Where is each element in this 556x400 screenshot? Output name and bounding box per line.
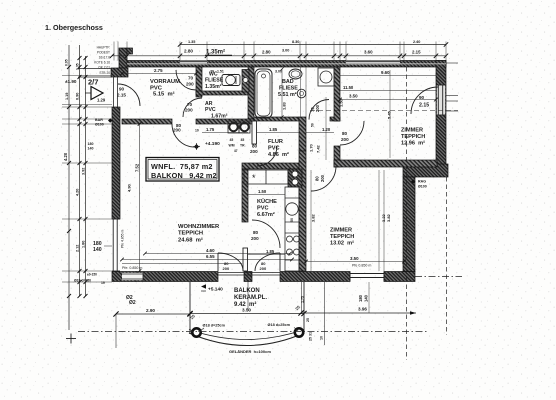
svg-text:3.92: 3.92 (82, 168, 86, 175)
svg-text:80: 80 (253, 230, 259, 235)
wall flur/wohnzimmer (light partition) (252, 121, 257, 144)
flur dim 1.85 (257, 132, 300, 134)
svg-text:5.15 m²: 5.15 m² (153, 91, 175, 98)
svg-text:RAG: RAG (418, 180, 426, 184)
svg-text:PODEST: PODEST (97, 51, 110, 55)
svg-text:1.75: 1.75 (301, 296, 305, 303)
svg-text:PVC: PVC (205, 107, 216, 113)
balcony railing outer curve (189, 333, 304, 346)
washbasin (318, 68, 334, 86)
svg-text:1.19: 1.19 (65, 93, 69, 100)
zimmer-se dim 3.50 (306, 261, 404, 263)
svg-text:1. Obergeschoss: 1. Obergeschoss (45, 23, 103, 32)
balcony french door right arc (255, 253, 280, 271)
wall vorraum south (122, 119, 172, 124)
svg-text:1.35: 1.35 (76, 63, 80, 70)
door vorraum-wohnzimmer arc (172, 124, 195, 147)
wohnzimmer parapet line (122, 263, 242, 265)
svg-text:HAUPTP.: HAUPTP. (97, 46, 111, 50)
svg-text:180: 180 (358, 294, 363, 302)
svg-text:+4.190: +4.190 (205, 141, 220, 147)
svg-text:200: 200 (223, 266, 230, 271)
bottom dim 2.90 (116, 313, 190, 315)
wall flur/kueche corner block (299, 117, 306, 151)
svg-text:2.15: 2.15 (117, 93, 126, 98)
svg-text:1.50: 1.50 (258, 189, 267, 194)
svg-text:WOHNZIMMER: WOHNZIMMER (178, 224, 220, 230)
entrance exterior lines (78, 68, 112, 70)
stairwell wall base block (111, 68, 128, 77)
wall zimmer-ne south (334, 160, 437, 167)
balcony post left (192, 328, 200, 336)
svg-text:BAD: BAD (282, 79, 294, 85)
svg-text:140: 140 (88, 147, 94, 151)
top dim line 2 (180, 44, 446, 46)
wall kueche west lower (light jamb) (243, 248, 248, 271)
balcony level marker +5.140 (201, 284, 206, 288)
svg-text:PVC: PVC (257, 206, 269, 212)
svg-text:1.29: 1.29 (97, 98, 106, 103)
svg-text:Ø2: Ø2 (129, 300, 136, 306)
wall kueche west upper (242, 169, 248, 222)
left dim line mid (79, 45, 81, 296)
dashed axis vertical through plan (406, 67, 408, 360)
zimmer-ne dim 3.50 (340, 99, 436, 101)
svg-text:24.68 m²: 24.68 m² (178, 237, 203, 244)
stairwell wall column top-left (119, 48, 127, 68)
exterior bottom wall middle segment (280, 272, 350, 282)
svg-text:200: 200 (320, 174, 325, 182)
svg-text:9.60: 9.60 (381, 70, 390, 75)
svg-text:16x17.6: 16x17.6 (99, 56, 111, 60)
stairwell wall stub right (127, 48, 133, 54)
right wall balcony door 90/2.15 (437, 85, 445, 115)
svg-text:200: 200 (260, 266, 267, 271)
svg-text:45: 45 (241, 138, 245, 142)
svg-text:1.20: 1.20 (322, 127, 331, 132)
balcony door center post (244, 272, 252, 282)
svg-text:1.51: 1.51 (217, 70, 224, 74)
balcony post right (295, 328, 303, 336)
svg-text:70: 70 (210, 70, 214, 74)
exterior right wall upper (436, 61, 446, 177)
bathtub (255, 69, 272, 118)
bad second basin (297, 89, 306, 98)
stair direction triangle (91, 87, 103, 100)
exterior right wall lower (403, 177, 415, 272)
bottom wall window (ZIMMER south window 180/140) (350, 273, 384, 275)
svg-text:4.20: 4.20 (63, 152, 68, 161)
level marker +4.190 (194, 144, 199, 149)
left wall window (WOHNZIMMER west window 180/140) (112, 219, 114, 271)
bottom wall window section west (parapet) (122, 273, 143, 280)
svg-text:7.52: 7.52 (135, 163, 140, 172)
kitchen east counter (285, 187, 299, 271)
svg-text:4.60: 4.60 (206, 248, 215, 253)
svg-text:90: 90 (119, 87, 125, 92)
dash-dot axis right of bottom wall (415, 276, 462, 278)
svg-text:10: 10 (320, 336, 324, 340)
left horizontal extension lines (62, 74, 112, 76)
svg-text:PVC: PVC (268, 146, 280, 152)
svg-text:200: 200 (341, 137, 349, 142)
svg-text:0.95: 0.95 (65, 59, 69, 66)
RAG drain marker right (411, 179, 415, 183)
bottom dim 3.96 (301, 312, 416, 314)
svg-text:80: 80 (252, 144, 258, 149)
svg-text:GELÄNDER h=100cm: GELÄNDER h=100cm (229, 349, 271, 354)
kueche dim 1.85 (248, 254, 285, 256)
svg-text:47: 47 (234, 149, 238, 153)
svg-text:STB 20: STB 20 (99, 71, 110, 75)
svg-text:±0-150: ±0-150 (87, 273, 97, 277)
exterior left wall (112, 107, 120, 219)
svg-text:+5.140: +5.140 (208, 287, 223, 293)
svg-text:ZIMMER: ZIMMER (401, 128, 423, 134)
svg-text:KERAM.PL.: KERAM.PL. (234, 295, 267, 301)
exterior bottom wall east segment (384, 272, 415, 282)
svg-text:2.15: 2.15 (419, 103, 429, 109)
svg-text:2.80: 2.80 (184, 49, 193, 54)
vorraum dim 2.75 (122, 73, 196, 75)
svg-text:Pfe. 0.850 m: Pfe. 0.850 m (122, 266, 142, 270)
svg-text:BALKON: BALKON (234, 288, 260, 294)
svg-text:25 31: 25 31 (309, 332, 313, 341)
flur dim 1.20 (306, 132, 334, 134)
survey cross bottom-left (66, 338, 76, 340)
balcony railing inner curve (189, 330, 304, 340)
top wall mid joint line (127, 63, 446, 65)
svg-text:BALKON 9,42 m2: BALKON 9,42 m2 (151, 171, 217, 180)
bad extension lines (300, 67, 302, 117)
svg-text:8.30: 8.30 (292, 40, 299, 44)
door zimmer-ne balcony arc (right wall) (411, 87, 438, 114)
wohnzimmer vertical dim 7.52 (139, 124, 141, 271)
washing machine (228, 121, 239, 133)
door apartment entrance arc (118, 84, 140, 106)
top wall window left (VORRAUM/WC window) (180, 61, 207, 65)
svg-text:Ø100: Ø100 (418, 185, 427, 189)
svg-text:4.86 m²: 4.86 m² (268, 151, 289, 158)
svg-text:70: 70 (188, 76, 194, 81)
kitchen counter top (244, 170, 288, 184)
svg-text:FLUR: FLUR (268, 139, 283, 145)
svg-text:3.00: 3.00 (282, 49, 289, 53)
svg-text:200: 200 (251, 236, 259, 241)
svg-text:50: 50 (290, 218, 294, 222)
svg-text:WNFL. 75,87 m2: WNFL. 75,87 m2 (151, 162, 213, 171)
door wohnzimmer-kueche arc (252, 220, 280, 248)
door flur-wohnzimmer arc (257, 146, 277, 166)
svg-text:80: 80 (315, 176, 320, 181)
svg-text:VORRAUM: VORRAUM (150, 79, 180, 85)
svg-text:1.35m²: 1.35m² (205, 84, 222, 90)
door flur-bad arc (309, 100, 329, 120)
svg-text:45: 45 (230, 138, 234, 142)
wall bad south stub east (330, 117, 340, 121)
door flur-zimmer-ne arc (340, 121, 364, 145)
svg-text:1.50: 1.50 (339, 98, 344, 107)
dashed axis vertical right outer (446, 177, 448, 335)
svg-text:TEPPICH: TEPPICH (401, 134, 425, 140)
dash axis horizontal zimmer-ne (310, 110, 458, 112)
svg-text:200: 200 (186, 82, 194, 87)
dash-dot axis horizontal bottom (78, 331, 428, 333)
svg-text:2.90: 2.90 (146, 308, 155, 313)
svg-text:2/7: 2/7 (88, 78, 98, 87)
svg-text:50: 50 (311, 123, 315, 127)
svg-text:BAR: BAR (95, 118, 103, 122)
svg-text:KOTE 6.16: KOTE 6.16 (94, 61, 110, 65)
zimmer-ne dim 11.50 (340, 90, 436, 92)
svg-text:1.35m²: 1.35m² (206, 49, 225, 56)
svg-text:3.60: 3.60 (364, 50, 373, 55)
svg-text:200: 200 (173, 128, 181, 133)
svg-text:2.75: 2.75 (154, 68, 163, 73)
svg-text:TEPPICH: TEPPICH (178, 231, 203, 237)
kitchen sink unit dark (288, 169, 302, 187)
svg-text:2.80: 2.80 (262, 50, 271, 55)
wall bad south (254, 117, 299, 121)
wall bad/zimmer-ne (334, 67, 340, 121)
WNFL area box (146, 158, 219, 182)
BAR drain marker left (108, 118, 112, 122)
svg-text:140: 140 (364, 294, 369, 302)
right leader lines (446, 62, 458, 64)
svg-text:OK 2.01: OK 2.01 (98, 66, 110, 70)
svg-text:FLIESE: FLIESE (205, 78, 224, 84)
svg-text:140: 140 (93, 247, 102, 253)
wohnzimmer dim 4.60 (145, 253, 290, 255)
svg-text:3.82: 3.82 (311, 213, 316, 222)
svg-text:11.50: 11.50 (343, 85, 354, 90)
extension line below balcony door post (247, 282, 249, 312)
svg-text:1.67m²: 1.67m² (211, 114, 228, 120)
svg-text:±1.90: ±1.90 (65, 79, 77, 84)
exterior step wall right (403, 164, 448, 177)
svg-text:Ø18 d=25cm: Ø18 d=25cm (203, 324, 226, 328)
svg-text:6.67m²: 6.67m² (257, 211, 275, 218)
svg-text:25: 25 (306, 318, 310, 322)
exterior top wall (127, 61, 446, 68)
wohnzimmer dim 6.55 (122, 259, 292, 261)
svg-text:TEPPICH: TEPPICH (330, 234, 354, 240)
door vorraum-wc arc (176, 70, 196, 90)
svg-text:180: 180 (88, 142, 94, 146)
svg-text:2.40: 2.40 (413, 40, 420, 44)
svg-text:1.70: 1.70 (309, 143, 314, 152)
svg-text:Pfe 0.850 m: Pfe 0.850 m (352, 264, 371, 268)
toilet wc (222, 75, 240, 86)
svg-text:TR: TR (240, 144, 245, 148)
svg-text:6.55: 6.55 (206, 254, 215, 259)
svg-text:80: 80 (342, 131, 348, 136)
flur extension line (325, 97, 327, 160)
left dim line outer (68, 45, 70, 330)
bad washbasin oval (289, 69, 302, 79)
wall flur east stub (334, 146, 340, 167)
svg-text:7.42: 7.42 (316, 144, 321, 153)
balcony right edge (303, 282, 305, 334)
wall kueche/zimmer-se (299, 151, 306, 271)
zimmer-ne extension line (389, 70, 391, 158)
svg-text:0.90: 0.90 (76, 93, 80, 100)
svg-text:4.20: 4.20 (76, 189, 80, 196)
top extension lines (113, 42, 115, 61)
bottom extension lines (115, 314, 117, 348)
balcony left edge (189, 282, 191, 334)
svg-text:3.96: 3.96 (358, 307, 367, 312)
svg-text:1.85: 1.85 (269, 127, 278, 132)
wall ar/bad (248, 67, 254, 119)
kitchen stove 4 plates (287, 236, 293, 242)
svg-text:5.45: 5.45 (387, 110, 392, 119)
exterior bottom-left corner (112, 272, 136, 282)
svg-text:Ø18 d=25cm: Ø18 d=25cm (268, 323, 291, 327)
svg-text:Pfe 4.855 m: Pfe 4.855 m (121, 230, 125, 248)
svg-text:KÜCHE: KÜCHE (257, 198, 277, 205)
svg-text:200: 200 (250, 149, 258, 154)
top wall window right (ZIMMER window 3.60) (346, 61, 400, 65)
dryer (239, 121, 250, 133)
plumbing shaft wc/bad (242, 70, 249, 93)
balcony door sill lines (218, 272, 280, 274)
wall vorraum/wc (196, 67, 202, 97)
ar south dim 1.75 (202, 132, 248, 134)
svg-text:3.50: 3.50 (242, 308, 251, 313)
svg-text:*: * (252, 173, 256, 183)
wall kueche north (242, 163, 302, 169)
svg-text:12.96 m²: 12.96 m² (401, 140, 425, 147)
door vorraum-ar arc (183, 98, 202, 117)
svg-text:1.75: 1.75 (206, 127, 215, 132)
svg-text:1.35: 1.35 (188, 40, 195, 44)
svg-text:10: 10 (195, 129, 199, 133)
top dim line (112, 55, 446, 57)
door flur-zimmer-se arc (311, 166, 336, 191)
svg-text:Ø100: Ø100 (95, 123, 104, 127)
zimmer-se extension lines (310, 170, 312, 271)
svg-text:3.82: 3.82 (386, 213, 391, 222)
balcony french door left arc (218, 253, 243, 271)
kueche dim 1.50 (248, 194, 285, 196)
wall wc/ar (196, 91, 248, 95)
svg-text:200: 200 (315, 104, 320, 112)
svg-text:2.15: 2.15 (412, 50, 421, 55)
svg-text:70: 70 (187, 102, 193, 107)
svg-text:2.12: 2.12 (76, 245, 80, 252)
svg-text:4.90: 4.90 (127, 183, 132, 192)
svg-text:1.85: 1.85 (266, 249, 275, 254)
svg-text:1.80: 1.80 (82, 241, 86, 248)
left dim line inner (85, 56, 87, 296)
svg-text:Ø18 d=150: Ø18 d=150 (74, 279, 91, 283)
svg-text:ZIMMER: ZIMMER (330, 228, 352, 234)
kitchen sink bowl (286, 203, 298, 215)
wall ar south (196, 119, 254, 124)
svg-text:19: 19 (101, 281, 105, 285)
bad vertical dim line 1.83 (281, 69, 283, 117)
svg-text:5.51 m²: 5.51 m² (278, 92, 297, 98)
svg-text:13.02 m²: 13.02 m² (330, 240, 354, 247)
svg-text:WM: WM (229, 144, 235, 148)
svg-text:3.50: 3.50 (349, 94, 358, 99)
zimmer-ne dim 9.60 (340, 75, 436, 77)
balcony dim line 3.50 (190, 313, 304, 315)
svg-text:3.50: 3.50 (350, 256, 359, 261)
exterior bottom wall west segment (136, 272, 218, 282)
svg-text:200: 200 (185, 108, 193, 113)
